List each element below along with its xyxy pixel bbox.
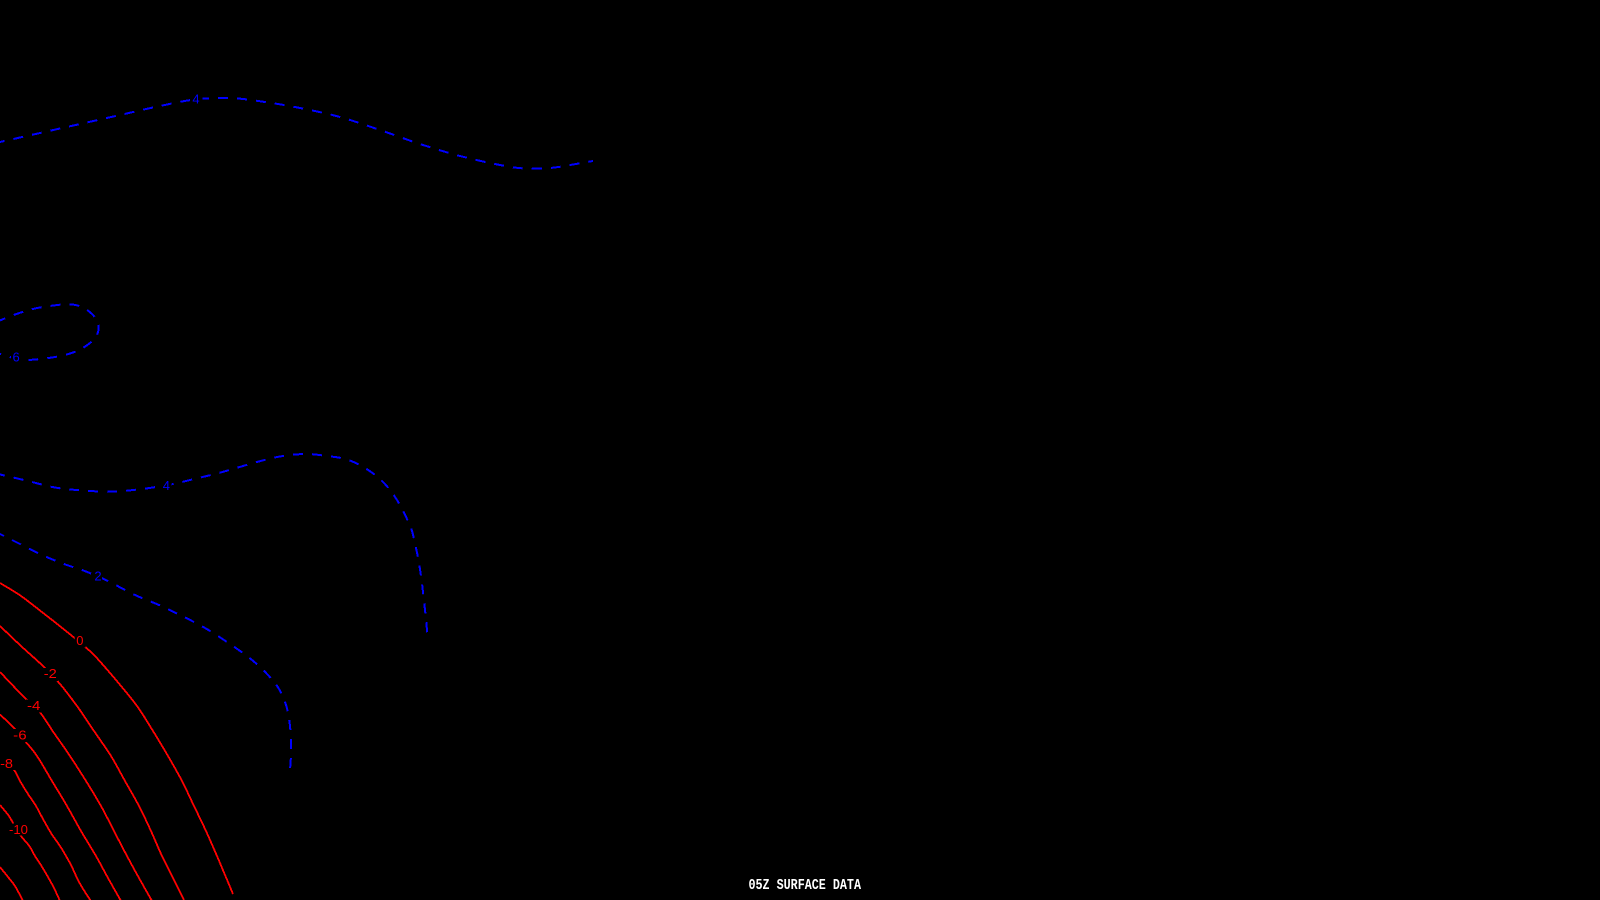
contour label 4 [162,478,172,493]
contour label 4 [191,91,203,106]
blue dashed contour line, value 4 (top) [0,98,593,169]
svg-text:-2: -2 [44,666,57,681]
contour label -10 [8,822,30,837]
svg-text:4: 4 [163,478,170,493]
contour label -8 [0,756,15,771]
contour label 2 [94,568,102,583]
svg-text:-4: -4 [27,698,40,713]
red contour line, value -10 [0,805,60,900]
red contour line, value 0 [0,583,233,894]
svg-text:-6: -6 [13,728,26,743]
contour label 0 [75,633,86,648]
contour label -6 [12,728,29,743]
red contour line, value -8 [0,761,91,900]
svg-text:05Z SURFACE DATA: 05Z SURFACE DATA [749,877,862,894]
red contour line, value -4 [0,672,152,900]
contour label 6 [11,349,22,364]
svg-text:4: 4 [192,91,199,106]
svg-text:-10: -10 [9,822,28,837]
title text: 05Z SURFACE DATA [749,877,862,894]
blue dashed contour line, value 4 (middle) [0,454,427,637]
svg-text:6: 6 [13,349,20,364]
blue dashed contour closed low, value 6 (left) [0,304,99,360]
blue dashed contour line, value 2 [0,532,291,771]
svg-text:0: 0 [76,633,83,648]
contour label -2 [43,666,59,681]
red contour line, value -2 [0,626,184,900]
svg-text:2: 2 [94,568,101,583]
contour label -4 [26,698,43,713]
red contour line, value -12 [0,867,23,900]
svg-text:-8: -8 [0,756,13,771]
red contour line, value -6 [0,715,121,900]
